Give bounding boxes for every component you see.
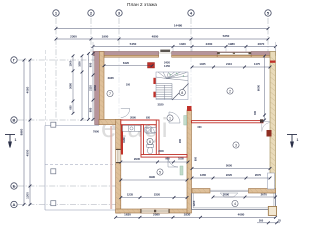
svg-text:2110: 2110 xyxy=(89,85,93,91)
dim line outside left wall xyxy=(92,53,94,119)
red partition stair west upper xyxy=(153,78,156,84)
top wall tan inner strip east xyxy=(251,55,270,57)
door gap line to wall xyxy=(263,121,270,123)
section mark left xyxy=(5,135,15,148)
room number 4 xyxy=(232,200,238,206)
extension lines top xyxy=(93,42,276,52)
svg-text:2670: 2670 xyxy=(255,173,262,177)
interior dim room5 lower xyxy=(121,197,187,199)
interior dim room7 top xyxy=(104,65,152,67)
red partition room5 north xyxy=(141,155,187,158)
eaves dashed line above terrace xyxy=(45,50,47,126)
bottom dim row xyxy=(114,216,277,219)
svg-text:1300: 1300 xyxy=(26,192,30,199)
room number 6 xyxy=(147,138,153,144)
interior dim room5 mid xyxy=(121,179,187,181)
svg-text:4: 4 xyxy=(234,202,236,206)
svg-text:930: 930 xyxy=(146,117,151,120)
terrace outline xyxy=(45,126,116,211)
svg-text:2320: 2320 xyxy=(154,193,161,197)
stair green marks xyxy=(169,73,184,77)
svg-text:4080: 4080 xyxy=(238,212,245,216)
red partition corridor north east part xyxy=(192,121,264,123)
axis Г line xyxy=(18,59,99,61)
svg-text:5250: 5250 xyxy=(223,34,230,38)
stair gap sill lines xyxy=(159,52,172,54)
outer wall upper-left rose layer xyxy=(95,52,100,125)
outside dim line far left xyxy=(72,56,74,114)
svg-text:5050: 5050 xyxy=(226,164,233,168)
svg-text:2300: 2300 xyxy=(70,34,77,38)
axis bubble 1 xyxy=(53,10,59,16)
svg-text:1: 1 xyxy=(15,138,17,142)
svg-text:1900: 1900 xyxy=(102,34,109,38)
svg-text:1980: 1980 xyxy=(122,137,126,143)
axis 1 line xyxy=(55,18,57,126)
svg-text:2935: 2935 xyxy=(134,157,141,161)
stair roof opening block xyxy=(160,50,170,52)
toilet xyxy=(147,145,154,155)
room number 1 xyxy=(167,115,173,121)
svg-text:3520: 3520 xyxy=(158,103,164,107)
svg-text:1000: 1000 xyxy=(79,61,82,67)
outer wall upper-left tan layer xyxy=(99,52,104,120)
wall hatch xyxy=(99,54,275,213)
room number 8 xyxy=(179,89,185,95)
svg-text:2110: 2110 xyxy=(226,62,233,66)
outer wall lower-left xyxy=(116,119,121,213)
svg-text:2300: 2300 xyxy=(206,42,213,46)
svg-text:1: 1 xyxy=(169,116,171,120)
svg-text:4060: 4060 xyxy=(93,85,97,91)
dim line outside left wall 2 xyxy=(88,53,90,119)
outer wall left step xyxy=(99,119,121,124)
svg-text:2670: 2670 xyxy=(261,193,268,197)
svg-text:1320: 1320 xyxy=(179,42,186,46)
bottom right small dim line xyxy=(257,222,280,224)
axis 5 line xyxy=(267,18,269,52)
svg-text:1: 1 xyxy=(297,138,299,142)
svg-text:1005: 1005 xyxy=(178,157,184,161)
svg-text:Б: Б xyxy=(13,183,16,188)
svg-text:1500: 1500 xyxy=(69,60,73,66)
axis 4 line xyxy=(190,18,192,52)
svg-text:1235: 1235 xyxy=(127,193,134,197)
balcony inner line xyxy=(193,193,274,208)
right wall red tick top xyxy=(270,61,276,63)
outer wall bottom xyxy=(116,209,191,213)
section mark right xyxy=(287,135,297,148)
terrace dashed edge xyxy=(45,164,116,166)
svg-text:3080: 3080 xyxy=(69,83,73,89)
door corridor-room3 xyxy=(169,112,180,123)
green door room5 east xyxy=(180,166,183,175)
svg-text:2: 2 xyxy=(229,89,231,93)
rose outer strip lower-left xyxy=(110,126,112,209)
door jamb blob partition east xyxy=(260,119,263,122)
svg-text:2220: 2220 xyxy=(226,173,233,177)
room number 3 xyxy=(233,142,239,148)
axis bubble Г xyxy=(11,57,17,63)
svg-text:300: 300 xyxy=(254,110,257,115)
door room7 xyxy=(121,109,130,118)
svg-text:3: 3 xyxy=(235,143,237,147)
svg-text:2420: 2420 xyxy=(164,61,170,65)
axis 3 line inside xyxy=(118,56,120,120)
svg-text:9860: 9860 xyxy=(20,128,24,135)
top wall rose edge across window xyxy=(217,52,251,53)
svg-text:План 2 этажа: План 2 этажа xyxy=(127,2,157,8)
window bottom wall room5 xyxy=(141,209,170,213)
axis 4 line inside xyxy=(190,56,192,188)
axis 2 line xyxy=(90,18,92,52)
terrace column 1 xyxy=(51,122,56,127)
svg-text:890: 890 xyxy=(89,62,93,67)
stairwell outline xyxy=(156,72,188,100)
svg-text:6: 6 xyxy=(149,140,151,144)
axis bubble В xyxy=(11,117,17,123)
axis В line xyxy=(18,119,116,121)
right wall red radiator blocks xyxy=(267,130,272,137)
axis bubble 4 xyxy=(188,10,194,16)
interior dim room3 lower xyxy=(192,177,270,179)
svg-text:980: 980 xyxy=(89,107,93,112)
svg-text:1475: 1475 xyxy=(254,62,261,66)
door bathroom xyxy=(146,125,155,134)
svg-text:4800: 4800 xyxy=(152,34,159,38)
terrace column 2 xyxy=(51,169,56,174)
svg-text:1200: 1200 xyxy=(192,200,196,206)
outer wall bottom-right east part xyxy=(249,189,276,194)
red lining kitchen west xyxy=(121,125,123,155)
svg-text:2935: 2935 xyxy=(108,76,115,80)
outer wall bottom-right west part xyxy=(192,189,210,194)
room number 2 xyxy=(227,88,233,94)
window left wall room5 xyxy=(116,149,121,163)
balcony door trapezoid xyxy=(220,193,238,197)
axis Б line xyxy=(18,185,116,187)
svg-text:7: 7 xyxy=(109,92,111,96)
svg-text:В: В xyxy=(13,117,16,122)
room number 5 xyxy=(157,169,163,175)
top wall tan inner strip west xyxy=(104,55,159,57)
balcony door threshold lines xyxy=(210,190,249,191)
svg-text:8: 8 xyxy=(181,91,183,95)
red partition bathroom west xyxy=(141,125,144,156)
interior dim room2 right vertical xyxy=(264,56,266,120)
svg-text:1980: 1980 xyxy=(228,42,235,46)
right wall opening xyxy=(268,173,275,189)
axis bubble А xyxy=(11,201,17,207)
axis bubble 3 xyxy=(116,10,122,16)
svg-text:4500: 4500 xyxy=(26,149,30,156)
svg-text:600: 600 xyxy=(70,105,73,110)
red partition stair west lower xyxy=(153,92,156,98)
kitchen counter xyxy=(123,126,141,132)
svg-text:2090: 2090 xyxy=(130,116,136,120)
svg-text:5450: 5450 xyxy=(130,42,137,46)
stair treads xyxy=(156,84,172,100)
svg-text:7900: 7900 xyxy=(93,130,99,134)
stair break line xyxy=(172,84,189,101)
svg-text:5: 5 xyxy=(159,170,161,174)
svg-text:6420: 6420 xyxy=(123,61,130,65)
bottom window center block xyxy=(154,210,156,212)
svg-text:4060: 4060 xyxy=(26,86,30,93)
svg-text:600: 600 xyxy=(195,156,198,161)
red partition corridor north west part xyxy=(121,120,157,125)
washer xyxy=(151,128,156,133)
balcony dim line xyxy=(213,196,276,198)
svg-text:2000: 2000 xyxy=(158,150,164,153)
svg-text:2090: 2090 xyxy=(223,193,230,197)
stair winder fan xyxy=(156,72,188,81)
red partition above room3 west wall xyxy=(187,106,192,111)
axis bubble 5 xyxy=(265,10,271,16)
room number 7 xyxy=(107,90,113,96)
svg-text:1365: 1365 xyxy=(200,173,207,177)
red partition bathroom east xyxy=(156,120,159,156)
svg-text:260: 260 xyxy=(259,218,264,222)
svg-text:6000: 6000 xyxy=(256,84,260,91)
top dim row 2 axis spans xyxy=(55,38,270,41)
outer wall right xyxy=(270,52,276,194)
axis bubble Б xyxy=(11,183,17,189)
outer wall top east segment xyxy=(251,52,275,56)
svg-text:600: 600 xyxy=(198,126,203,129)
axis А line xyxy=(18,204,116,206)
top wall tan sill under window xyxy=(217,55,251,57)
outer wall top west segment xyxy=(93,52,159,56)
top wall tan inner strip mid xyxy=(172,55,218,57)
window top wall room2 xyxy=(217,52,251,54)
door room5 xyxy=(168,157,178,167)
svg-text:900: 900 xyxy=(179,138,182,143)
svg-text:А: А xyxy=(13,202,16,207)
terrace column 3 xyxy=(51,201,56,206)
axis bubble 2 xyxy=(88,10,94,16)
sink xyxy=(145,128,151,133)
interior dim room2 top xyxy=(192,66,270,68)
balcony corner square xyxy=(268,206,276,215)
door swing room3 xyxy=(262,123,270,132)
svg-text:25: 25 xyxy=(278,218,281,222)
svg-text:900: 900 xyxy=(165,157,170,161)
svg-text:100: 100 xyxy=(126,84,131,87)
svg-text:4990: 4990 xyxy=(149,175,156,179)
balcony outline xyxy=(192,193,276,210)
top dim row 1 overall xyxy=(55,27,270,30)
interior dim room3 bottom xyxy=(192,168,270,170)
green door corridor xyxy=(184,116,187,126)
svg-text:2670: 2670 xyxy=(258,42,265,46)
left dim inner spans xyxy=(29,59,32,206)
red chimney block xyxy=(148,63,155,69)
axis 3 line xyxy=(118,18,120,52)
dim chain hugging left wall xyxy=(81,56,83,120)
interior dim room5 upper xyxy=(121,161,188,163)
wall room3 west / room5 east xyxy=(187,110,192,213)
left dim outer overall xyxy=(23,59,26,206)
outer wall top middle segment xyxy=(172,52,218,56)
svg-text:1465: 1465 xyxy=(199,62,206,66)
svg-text:14480: 14480 xyxy=(174,24,183,28)
top dim row 3 wall spans xyxy=(92,45,277,48)
